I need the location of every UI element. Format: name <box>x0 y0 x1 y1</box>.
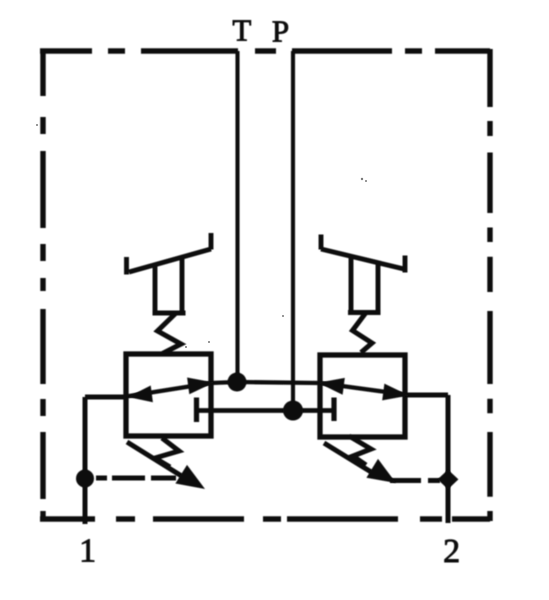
wire pilot P line horizontal <box>196 408 335 413</box>
adjuster tick left V2 <box>319 235 324 250</box>
spring S2 above V2 <box>353 313 373 353</box>
svg-text:2: 2 <box>443 533 460 570</box>
node 2 junction diamond <box>438 470 459 490</box>
drain line to node 2 <box>390 478 421 483</box>
wire node T to flow path V2 <box>237 382 405 395</box>
svg-text:1: 1 <box>79 533 96 570</box>
adjuster housing V1 <box>153 258 186 313</box>
spring S1 above V1 <box>158 313 182 354</box>
node 1 junction dot <box>76 470 94 488</box>
valve V2 body square <box>320 355 405 437</box>
drain dashed pilot line node1 <box>96 476 176 481</box>
arrowhead drain V1 <box>175 465 205 489</box>
adjuster tick left V1 <box>124 257 129 275</box>
arrowhead V2 left <box>318 378 345 395</box>
enclosure dashed border bottom <box>40 516 490 521</box>
wire V2 port to node 2 horizontal <box>403 393 448 398</box>
scan speckles (noise) <box>361 178 363 180</box>
drain spring below V2 <box>349 436 371 465</box>
adjuster housing V2 <box>348 256 381 313</box>
adjuster lever slant V2 <box>321 249 404 269</box>
drain arrow shaft below V1 <box>127 442 192 483</box>
wire V1 port to node 1 horizontal <box>85 395 128 400</box>
adjuster tick right V2 <box>403 256 408 273</box>
arrowhead V1 left <box>128 386 153 403</box>
wire node 1 vertical to bottom border <box>83 397 88 524</box>
wire P line vertical <box>291 51 295 410</box>
node P junction dot <box>283 401 303 421</box>
wire node 2 vertical to bottom border <box>446 395 451 523</box>
arrowhead V2 right <box>382 384 409 401</box>
drain arrow shaft below V2 <box>324 443 376 475</box>
enclosure dashed border top <box>40 48 490 53</box>
arrowhead drain V2 <box>366 459 396 483</box>
node T junction dot <box>228 373 247 392</box>
enclosure dashed border right <box>487 49 492 521</box>
pilot seat bar in V1 <box>194 398 199 423</box>
enclosure dashed border left <box>40 49 45 521</box>
drain dash to node 2 <box>428 478 440 483</box>
pilot seat bar in V2 <box>331 398 336 422</box>
adjuster lever slant V1 <box>129 249 211 272</box>
drain spring below V1 <box>155 438 179 467</box>
wire T line vertical <box>235 51 239 382</box>
arrowhead V1 right <box>187 378 214 395</box>
svg-text:T: T <box>232 13 251 48</box>
valve V1 body square <box>126 354 211 436</box>
wire flow path V1 to node T <box>126 382 237 397</box>
svg-text:P: P <box>272 14 289 49</box>
adjuster tick right V1 <box>209 233 214 250</box>
